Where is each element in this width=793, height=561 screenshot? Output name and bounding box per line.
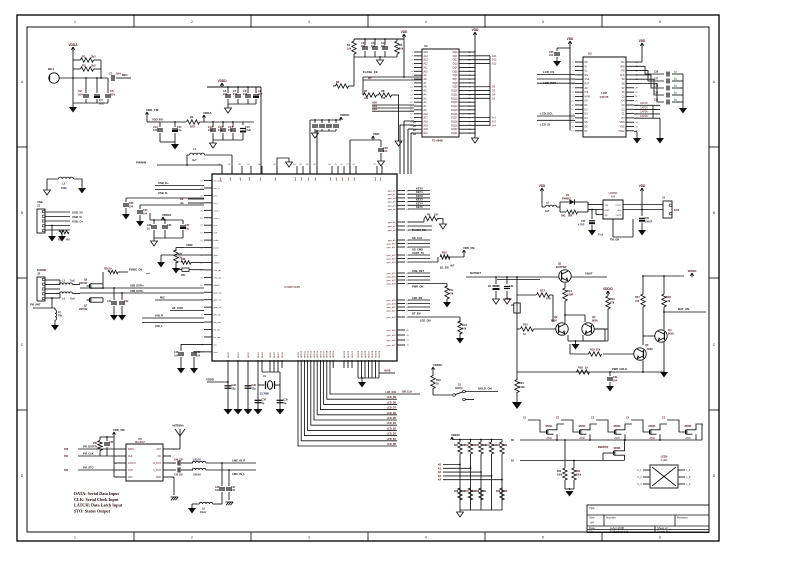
svg-text:15: 15 (410, 106, 412, 108)
svg-text:SEG0: SEG0 (228, 351, 230, 358)
capacitor C38 (147, 219, 157, 238)
bus lcd fan (298, 368, 397, 446)
svg-text:81: 81 (313, 164, 315, 166)
svg-text:D-3: D-3 (492, 120, 497, 123)
svg-text:R41: R41 (576, 470, 581, 473)
IC U2 flash (410, 44, 470, 143)
svg-text:dm_clk: dm_clk (214, 315, 222, 317)
svg-text:gpio_a2: gpio_a2 (214, 307, 223, 309)
inductor L1 (189, 147, 204, 162)
capacitor C11 (172, 121, 182, 142)
svg-text:2R2: 2R2 (190, 125, 195, 129)
svg-text:104: 104 (208, 128, 213, 132)
svg-text:4k7: 4k7 (450, 264, 455, 268)
wire L1 right (205, 155, 232, 174)
svg-text:104: 104 (196, 355, 201, 358)
svg-text:27: 27 (636, 92, 638, 94)
node USB_DATA (130, 285, 145, 293)
svg-text:47k: 47k (381, 96, 386, 100)
svg-text:SEG20: SEG20 (333, 350, 335, 358)
svg-text:SEG29: SEG29 (375, 350, 377, 358)
svg-text:11: 11 (411, 90, 413, 92)
svg-text:P-ch: P-ch (598, 234, 604, 237)
wire q1 rail (540, 276, 607, 278)
svg-text:FM_ANT: FM_ANT (30, 303, 41, 307)
svg-text:R29 1k: R29 1k (104, 268, 112, 271)
label flash nets (372, 101, 414, 112)
svg-text:aout_l: aout_l (214, 209, 220, 212)
svg-text:71: 71 (407, 340, 409, 342)
svg-text:R12: R12 (462, 323, 467, 327)
node MIC (116, 73, 131, 78)
wire usb data lines (80, 287, 204, 294)
svg-text:8: 8 (572, 92, 573, 94)
wires headset (45, 280, 60, 298)
svg-text:4u7: 4u7 (192, 158, 197, 162)
svg-text:C43: C43 (109, 441, 114, 444)
capacitor C13 (218, 121, 226, 140)
ground c30 (504, 299, 511, 304)
svg-text:USB_D-: USB_D- (158, 191, 168, 195)
svg-text:LCD_D6: LCD_D6 (387, 412, 397, 415)
svg-text:47k: 47k (610, 301, 615, 305)
svg-text:32.768K: 32.768K (260, 393, 269, 396)
capacitor C8 (243, 86, 251, 104)
svg-text:C30: C30 (654, 100, 659, 102)
connector J1 USB (37, 200, 45, 233)
transistor Q3 (582, 315, 599, 335)
svg-text:gpio_b23: gpio_b23 (386, 317, 396, 319)
svg-text:VDDD: VDDD (217, 79, 227, 83)
svg-text:LED_EN: LED_EN (412, 296, 422, 300)
svg-text:A12: A12 (424, 63, 429, 66)
svg-text:VDDD: VDDD (206, 378, 214, 382)
wire r13 to base (553, 283, 565, 322)
svg-text:R26: R26 (58, 239, 63, 242)
wire flash vbus (474, 33, 476, 139)
svg-text:16: 16 (410, 110, 412, 112)
power VDD flash (401, 30, 408, 38)
svg-text:IRS: IRS (621, 65, 625, 68)
capacitor C2 (78, 78, 89, 103)
node FM_ANT (30, 303, 55, 309)
svg-text:U3: U3 (588, 52, 592, 56)
svg-text:LCD_SCL: LCD_SCL (540, 111, 553, 115)
wires key nets (408, 187, 430, 210)
svg-text:STO: STO (128, 470, 133, 472)
svg-text:DQ18: DQ18 (451, 120, 458, 123)
svg-text:13: 13 (410, 98, 412, 100)
svg-text:gpio_b1: gpio_b1 (388, 194, 397, 196)
svg-text:SEG11: SEG11 (304, 350, 306, 358)
ground usb1 (48, 236, 56, 242)
capacitor C12 (208, 121, 216, 140)
svg-text:A17: A17 (424, 117, 429, 120)
capacitor C32 (225, 384, 237, 391)
svg-text:LCD_D3: LCD_D3 (387, 427, 397, 430)
svg-text:104: 104 (153, 128, 158, 132)
capacitor C44 (174, 459, 183, 466)
svg-text:L_OUT: L_OUT (154, 470, 162, 472)
svg-text:LCM: LCM (601, 91, 607, 95)
svg-text:File:: File: (589, 529, 595, 533)
svg-text:HPM: HPM (585, 95, 590, 98)
node LCD_CS (537, 70, 575, 75)
capacitor C42 (119, 293, 129, 315)
svg-text:B1: B1 (488, 284, 492, 288)
svg-text:LCD_CS: LCD_CS (543, 70, 554, 74)
wire charger vert (516, 276, 518, 372)
svg-text:BATPNP: BATPNP (556, 265, 567, 269)
ground xtal1 (224, 409, 233, 415)
svg-text:FM/SE_ON: FM/SE_ON (129, 268, 142, 272)
wire amp node (588, 202, 603, 215)
svg-text:gpio_b12: gpio_b12 (386, 255, 396, 257)
svg-text:2300: 2300 (546, 437, 552, 440)
svg-text:19: 19 (200, 218, 202, 220)
wire lcd vss drop (634, 132, 637, 138)
svg-text:104: 104 (371, 45, 376, 48)
svg-text:C41: C41 (107, 300, 112, 303)
svg-text:USB: USB (37, 200, 43, 204)
svg-text:BAT_ON: BAT_ON (678, 307, 689, 311)
ground mic (69, 103, 77, 113)
svg-text:100k: 100k (519, 385, 525, 389)
svg-text:CAP2N: CAP2N (640, 106, 648, 109)
svg-text:AVSS: AVSS (384, 370, 391, 373)
svg-text:R2: R2 (82, 64, 86, 68)
svg-text:76: 76 (352, 164, 354, 166)
ground c41 (110, 315, 118, 321)
svg-text:OUT2: OUT2 (616, 205, 623, 207)
wire vdd18 to ic (0, 0, 1, 1)
ground c20 (378, 161, 385, 166)
svg-text:gpio_b16: gpio_b16 (386, 277, 396, 279)
svg-text:gpio_b14: gpio_b14 (386, 262, 396, 264)
wire vddd drop (260, 87, 262, 174)
svg-text:28: 28 (636, 88, 638, 90)
resistor R24 (515, 380, 526, 403)
svg-text:D12: D12 (492, 63, 497, 66)
switch S1 (433, 383, 465, 401)
wire dat stub (180, 202, 204, 205)
resistor R31 (454, 439, 466, 510)
svg-text:VDD_FM: VDD_FM (463, 246, 475, 250)
ground l8 (188, 504, 196, 514)
wire mic r right (94, 60, 102, 78)
svg-text:ain_r: ain_r (214, 202, 219, 205)
resistors key bottom (454, 488, 508, 500)
svg-text:RST: RST (585, 83, 590, 86)
svg-text:18: 18 (200, 225, 202, 227)
svg-text:R33: R33 (475, 445, 480, 447)
svg-text:DQ11: DQ11 (451, 93, 458, 96)
wire fet tops (0, 0, 1, 1)
svg-text:SEG2: SEG2 (248, 351, 250, 358)
svg-text:17: 17 (200, 233, 202, 235)
svg-text:usb_dp: usb_dp (214, 270, 222, 272)
ground r12 (456, 338, 464, 344)
node BATDET (466, 271, 540, 277)
svg-text:C42: C42 (124, 300, 129, 303)
transistor Q1 (556, 262, 571, 283)
capacitor C19 (333, 119, 339, 131)
capacitors lcd staircase (634, 66, 683, 104)
svg-text:2: 2 (572, 66, 573, 68)
svg-text:R42: R42 (561, 215, 566, 218)
svg-text:A18: A18 (424, 120, 429, 123)
svg-text:1M: 1M (434, 213, 438, 217)
svg-text:VO: VO (621, 117, 625, 120)
svg-text:MIC: MIC (160, 296, 165, 300)
ground u5 hatch (171, 497, 179, 500)
wire fet res join (565, 488, 574, 490)
power VDD mic (68, 43, 78, 51)
svg-text:VDD_FM: VDD_FM (152, 118, 163, 122)
wire vddio drop2 (316, 130, 318, 174)
label flash sig (363, 39, 422, 80)
wire lcd cap nets (634, 102, 660, 118)
svg-text:10: 10 (571, 101, 573, 103)
wire seg drops (270, 368, 278, 372)
resistor R23 (0, 0, 1, 1)
svg-text:10p: 10p (232, 388, 237, 391)
svg-text:VDDA: VDDA (203, 111, 212, 115)
svg-text:80: 80 (328, 164, 330, 166)
wire flashrc rail (354, 35, 404, 40)
diode D1 (560, 194, 588, 212)
svg-text:CAP4N: CAP4N (640, 115, 648, 118)
svg-text:SD: SD (605, 215, 608, 217)
wires u5 left nets (64, 442, 118, 477)
resistor R7 (364, 89, 377, 100)
svg-text:104: 104 (110, 93, 115, 97)
wire mic vdd stem (72, 48, 74, 61)
svg-text:R16: R16 (610, 297, 615, 301)
svg-text:SEG16: SEG16 (320, 350, 322, 358)
svg-text:2: 2 (191, 536, 193, 540)
svg-text:DQ4: DQ4 (453, 66, 459, 69)
capacitor C48 (174, 344, 204, 368)
connector J4 speaker (662, 196, 679, 219)
svg-text:HOLD_ON: HOLD_ON (478, 387, 492, 391)
svg-text:ain_l: ain_l (214, 195, 219, 197)
capacitor C14 (228, 121, 236, 140)
resistor R8 (379, 89, 392, 100)
svg-text:16: 16 (200, 240, 202, 242)
svg-text:Q2: Q2 (554, 315, 558, 319)
node HOLD_ON (465, 387, 498, 392)
wire charger rail (497, 279, 540, 281)
svg-text:vcm: vcm (214, 225, 218, 227)
wire mic r left (73, 60, 81, 78)
svg-text:86: 86 (258, 164, 260, 166)
svg-text:4: 4 (425, 20, 427, 24)
inductor L6 (181, 459, 222, 464)
svg-text:C1: C1 (109, 72, 113, 76)
svg-text:FB1: FB1 (181, 274, 186, 277)
svg-text:C45 105: C45 105 (174, 474, 183, 477)
node LINE_IN_L (222, 469, 256, 476)
wires led nets (408, 296, 430, 316)
svg-text:R39: R39 (496, 491, 501, 493)
svg-text:A20: A20 (424, 128, 429, 131)
svg-text:3: 3 (308, 536, 310, 540)
capacitor C17 (319, 119, 325, 131)
thermistor PTC1 (505, 297, 520, 313)
svg-text:89: 89 (228, 164, 230, 166)
text note (74, 491, 123, 513)
wire vddtop drop (349, 140, 351, 174)
svg-text:Title: Title (589, 506, 595, 510)
svg-text:10k: 10k (399, 47, 404, 51)
svg-text:A4: A4 (590, 521, 594, 525)
svg-text:fm_dat: fm_dat (214, 336, 221, 339)
svg-text:LM4890: LM4890 (609, 192, 618, 195)
svg-text:FM_ON: FM_ON (610, 238, 619, 242)
svg-text:gpio_b6: gpio_b6 (388, 222, 397, 224)
svg-text:USB_D+: USB_D+ (158, 181, 169, 185)
ground lcd stair (679, 108, 687, 114)
svg-text:vref: vref (214, 232, 218, 235)
svg-text:VDD: VDD (567, 37, 574, 41)
svg-text:C30: C30 (509, 285, 514, 288)
capacitor C10 (153, 122, 163, 142)
svg-text:R10: R10 (442, 251, 447, 255)
capacitor C51 (639, 210, 653, 231)
svg-text:LCD_D5: LCD_D5 (387, 417, 397, 420)
svg-text:DATA: DATA (128, 448, 134, 451)
wire hp join (51, 280, 60, 308)
svg-text:A19: A19 (372, 104, 377, 108)
power VDDA label (203, 111, 213, 122)
svg-text:12: 12 (200, 270, 202, 272)
capacitor C36 (123, 198, 204, 214)
ground ant filled (78, 188, 86, 194)
svg-text:104: 104 (143, 213, 148, 216)
resistor R29 (103, 268, 128, 284)
svg-text:CS1: CS1 (585, 78, 590, 81)
node DM_CLK (397, 391, 420, 395)
connector J2 headset (37, 268, 46, 301)
svg-text:22: 22 (200, 195, 202, 197)
svg-text:24: 24 (200, 181, 202, 183)
svg-text:26: 26 (636, 96, 638, 98)
resistor R5 (395, 39, 404, 57)
wire fet rail (511, 424, 702, 442)
transistor Q6 2N7002 (79, 279, 97, 289)
ground q4q5 (643, 370, 668, 378)
svg-text:14: 14 (410, 102, 412, 104)
svg-text:LATCH: Data Latch Input: LATCH: Data Latch Input (74, 503, 123, 508)
svg-text:87: 87 (247, 164, 249, 166)
inductor L9 (545, 202, 560, 214)
svg-text:104: 104 (233, 92, 238, 96)
svg-text:R8: R8 (381, 89, 385, 93)
svg-text:PHONE: PHONE (37, 268, 46, 272)
svg-text:PTC1: PTC1 (505, 297, 512, 301)
svg-text:A13: A13 (424, 59, 429, 62)
svg-text:MOS2: MOS2 (579, 425, 586, 428)
resistor R28 (181, 258, 204, 264)
capacitor C37 (137, 205, 204, 221)
svg-text:RS: RS (585, 74, 589, 77)
wire beep rail (511, 453, 624, 463)
wires sd nets (408, 236, 430, 252)
power VDDD xtal (206, 378, 229, 383)
svg-text:47k: 47k (635, 299, 640, 303)
power VDD flash right (472, 28, 479, 36)
svg-text:CLS: CLS (620, 74, 625, 77)
svg-text:WP: WP (368, 77, 372, 80)
svg-text:C28: C28 (654, 86, 659, 88)
resistor R34 (486, 439, 498, 510)
ground c37 (136, 221, 144, 227)
svg-text:C29: C29 (654, 93, 659, 95)
svg-text:VIN: VIN (605, 205, 609, 207)
svg-text:R28: R28 (181, 258, 186, 261)
wire sw nc (465, 399, 474, 401)
svg-text:ANT: ANT (156, 448, 161, 451)
svg-text:P21: P21 (64, 455, 69, 458)
svg-text:2N7002: 2N7002 (79, 308, 88, 311)
wire right verts (643, 276, 664, 294)
svg-text:VDDIO: VDDIO (688, 269, 698, 273)
svg-text:10u: 10u (177, 128, 182, 132)
svg-text:S6B33B: S6B33B (600, 96, 609, 99)
svg-text:R17: R17 (635, 295, 640, 299)
ground c51 (638, 230, 646, 236)
node BAT_ON (663, 307, 706, 313)
svg-text:C44 105: C44 105 (174, 459, 183, 462)
ground battery (493, 299, 500, 304)
svg-text:HOLD: HOLD (455, 386, 462, 390)
inductor L3 (60, 280, 80, 285)
svg-text:16: 16 (571, 126, 573, 128)
node BL_EN (440, 266, 449, 270)
svg-text:Number: Number (606, 516, 616, 520)
svg-text:8050: 8050 (647, 347, 653, 351)
svg-text:VDD: VDD (617, 210, 622, 212)
IC U1 left pins (200, 181, 223, 354)
wires key rows (438, 464, 503, 482)
svg-text:82: 82 (306, 164, 308, 166)
node LCD_SI (537, 120, 575, 126)
transistor M3 (591, 417, 632, 441)
capacitor C34 (255, 399, 267, 406)
transistor Q2 (551, 315, 568, 335)
svg-text:70: 70 (407, 335, 409, 337)
svg-text:4.7UF: 4.7UF (578, 224, 585, 227)
wire q2q3 links (553, 314, 605, 341)
svg-text:69: 69 (407, 330, 409, 332)
ground flash right (472, 138, 479, 143)
svg-text:mic_in: mic_in (214, 188, 221, 190)
svg-text:gpio_b15: gpio_b15 (386, 273, 396, 275)
svg-text:LCD_D4: LCD_D4 (387, 422, 397, 425)
svg-text:dat: dat (180, 202, 184, 205)
ground elbow (286, 162, 293, 167)
ground gpio (358, 377, 366, 387)
svg-text:R20: R20 (578, 366, 583, 370)
svg-text:R7: R7 (364, 89, 368, 93)
resistor R10 (408, 251, 455, 268)
svg-text:20: 20 (636, 122, 638, 124)
svg-text:78: 78 (340, 164, 342, 166)
svg-text:77: 77 (346, 164, 348, 166)
svg-text:D-2: D-2 (492, 117, 497, 120)
svg-text:USB_D+: USB_D+ (72, 220, 83, 224)
